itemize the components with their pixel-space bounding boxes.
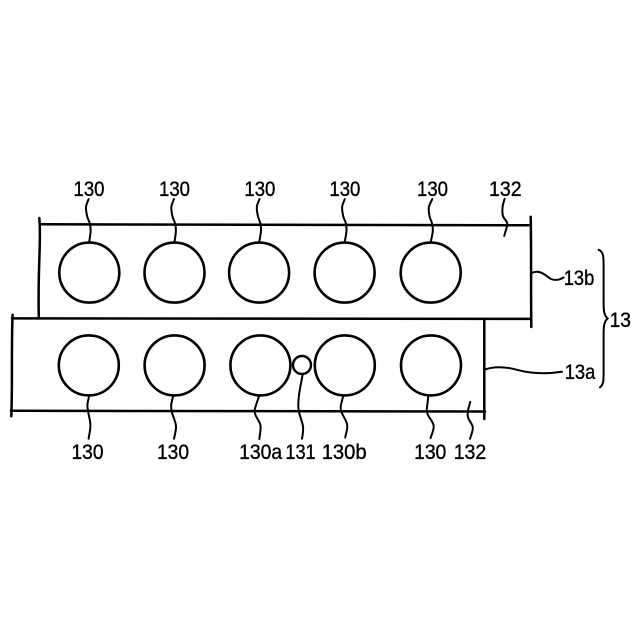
svg-text:131: 131 (285, 441, 315, 464)
svg-text:13: 13 (610, 309, 631, 332)
svg-text:130: 130 (244, 178, 275, 201)
svg-text:130a: 130a (239, 441, 282, 464)
svg-text:130: 130 (414, 441, 446, 464)
svg-text:130: 130 (329, 178, 360, 201)
svg-text:13b: 13b (564, 267, 595, 290)
svg-text:130: 130 (157, 441, 189, 464)
svg-text:132: 132 (489, 178, 522, 201)
svg-text:13a: 13a (565, 361, 596, 384)
svg-text:130b: 130b (322, 441, 367, 464)
svg-text:132: 132 (454, 441, 487, 464)
svg-text:130: 130 (74, 178, 105, 201)
svg-text:130: 130 (159, 178, 190, 201)
svg-text:130: 130 (72, 441, 104, 464)
svg-text:130: 130 (417, 178, 448, 201)
